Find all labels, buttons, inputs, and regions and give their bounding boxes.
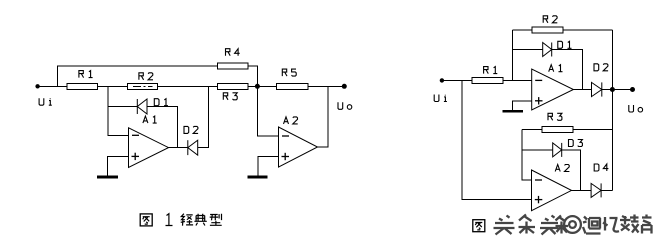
op-amp A2 (left circuit) [279,127,318,167]
wire R3 to summing node [248,85,257,87]
glyph 型 [210,214,222,226]
node Ui input terminal (right circuit) [440,78,444,82]
label A2 (left) [284,117,298,124]
wire right vertical bus R2/node/R3/D4 [611,30,613,191]
wire A1 non-inverting to ground (right) [513,101,532,110]
watermark 头条头条@逥忆教育 (gray embossed) [495,216,653,236]
wire A2 inverting loop vertical (right) [522,129,532,180]
wire R2 row left (right) [513,29,533,31]
wire node to Uo (right) [612,89,632,91]
wire input to R1 [38,85,68,87]
label R3 (right) [548,113,562,120]
wire D1 to A1 output (right) [552,50,583,90]
node summing junction [255,84,260,89]
label R2 (left) [139,73,153,80]
wire R3 row left (right) [522,128,542,130]
wire R1 to R2 [98,85,128,87]
label A2 (right) [555,165,569,172]
条 [519,215,536,234]
wire D2 to output node (right) [602,89,613,91]
wire D1 to output node [147,107,177,148]
wire D4 to right bus [601,189,612,191]
diode D2 (left circuit) [188,140,198,155]
头 [494,216,515,235]
label D2 (right) [594,64,608,71]
wire R2 row right [563,29,613,31]
glyph 典 [194,214,206,226]
caption left: 图 1 经典型 [140,214,222,226]
resistor R2 (left) [128,83,158,89]
wire A1 non-inverting input [108,156,129,175]
label D1 (left) [154,99,168,106]
label R3 (left) [223,93,237,100]
wire A2 output up to Uo line [318,86,329,147]
wire input to R1 (right) [442,79,472,81]
node output junction (right circuit) [610,87,615,92]
wire node to R5 [257,85,276,87]
wire A2 output to D4 (right) [572,189,592,191]
wire D2 up to R3 left node [198,86,209,147]
ground (A1 left circuit) [97,176,118,179]
node Ui input terminal (left circuit) [35,84,39,88]
label R1 (left) [79,71,93,78]
label R5 (left) [282,69,296,76]
wire D3 to A2 output (right) [562,150,581,191]
@ [564,216,581,233]
育 [642,215,652,234]
caption right: 图 [473,220,485,232]
diode D1 (right circuit) [543,43,552,57]
wire riser to feedback R2/D1 (right) [512,30,514,81]
label A1 (right) [549,65,563,72]
wire A1 output to D2 [169,147,188,149]
ground (A2 left circuit) [247,176,267,179]
node Uo output terminal (right circuit) [630,87,635,92]
忆 [603,217,619,232]
op-amp A1 (right circuit) [532,69,574,110]
头 (2) [540,216,559,235]
resistor R3 (right) [542,126,573,132]
diode D4 (right circuit) [591,183,601,197]
ground (A1 right circuit) [502,110,522,113]
wire A2 inverting input riser (left circuit) [257,86,278,136]
resistor R1 (right) [472,77,503,83]
glyph 经 [181,214,193,226]
op-amp A2 (right circuit) [532,170,572,211]
diode D2 (right circuit) [592,82,602,96]
label D4 (right) [594,164,608,171]
diode D3 (right circuit) [553,143,562,157]
resistor R1 (left) [67,83,97,89]
label Uo (right) [629,105,643,112]
逥 [583,217,601,234]
node Uo output terminal (left circuit) [342,84,347,89]
resistor R2 (right) [532,27,563,33]
wire to A2 non-inverting (right, long loop) [462,80,531,199]
glyph 图 [140,214,152,226]
diode D1 (left circuit) [137,99,147,114]
label D2 (left) [184,126,198,133]
glyph 1 [166,214,173,226]
条 (2) [556,216,569,234]
label Ui (right) [434,95,447,102]
wire R4 to summing node [248,66,257,86]
wire A2 non-inverting input [258,157,279,176]
wire riser to top feedback [57,66,217,86]
glyph 图 (right caption) [473,220,485,232]
label A1 (left) [143,116,157,123]
resistor R5 (left) [277,83,308,89]
label R4 (left) [226,49,240,56]
wire A1 inverting input riser [108,86,129,135]
label Ui (left) [39,98,52,105]
wire R2 to R3 [157,85,217,87]
wire R1 to A1 inverting (right) [503,79,532,81]
label R2 (right) [543,16,557,23]
wire R5 to Uo [308,85,345,87]
resistor R4 (left) [218,63,249,69]
label R1 (right) [484,67,498,74]
wire A1 output to D2 (right) [573,89,591,91]
resistor R3 (left) [218,83,249,89]
label D3 (right) [569,140,583,147]
wire D3 row left (right) [522,149,553,151]
op-amp A1 (left circuit) [129,128,169,168]
wire R3 row right [573,128,613,130]
教 [620,215,639,233]
wire to diode D1 [108,106,138,108]
wire dash-dot inside R2 [133,85,153,87]
label D1 (right) [558,41,572,48]
label Uo (left) [338,102,352,109]
wire D1 row left (right) [513,49,543,51]
